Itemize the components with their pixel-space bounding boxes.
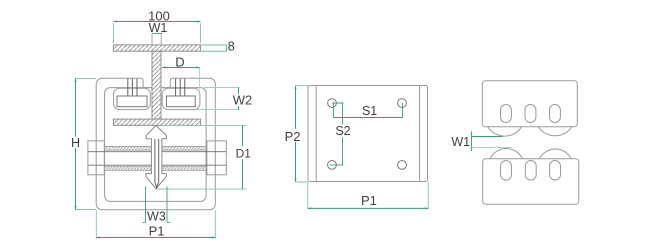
upper block slot 1 bbox=[501, 105, 512, 123]
hole top-right bbox=[398, 99, 407, 108]
upper block slot 2 bbox=[525, 105, 536, 123]
lower block slot 1 bbox=[501, 161, 512, 181]
upper roller arc right bbox=[538, 127, 571, 136]
suspension rod bbox=[155, 139, 159, 187]
svg-text:W1: W1 bbox=[149, 21, 168, 35]
left roller axle bolt lines bbox=[128, 79, 137, 96]
dimension P1 (middle view) bbox=[308, 182, 428, 209]
dimension D1 bbox=[157, 126, 247, 190]
dimension P1 (left view) bbox=[96, 210, 215, 238]
lower roller arc left bbox=[490, 149, 523, 159]
dimension 100 bbox=[113, 21, 200, 23]
I-beam top flange (hatched) bbox=[113, 45, 200, 51]
left axle tab bbox=[88, 141, 104, 175]
svg-text:W1: W1 bbox=[451, 135, 470, 149]
upper trolley block bbox=[482, 81, 577, 127]
svg-text:S2: S2 bbox=[335, 124, 350, 138]
upper block slot 3 bbox=[550, 105, 561, 123]
svg-text:W3: W3 bbox=[147, 209, 166, 223]
hole bottom-left bbox=[328, 161, 337, 170]
dimension S1 bbox=[334, 103, 403, 118]
svg-text:W2: W2 bbox=[233, 93, 253, 108]
dimension W1 (right view gap) bbox=[471, 131, 473, 151]
dimension W3 bbox=[143, 187, 170, 223]
mounting plate bbox=[308, 86, 428, 182]
upper threaded axle (hatched band) bbox=[105, 146, 207, 150]
svg-text:H: H bbox=[71, 136, 80, 150]
svg-text:P1: P1 bbox=[361, 193, 377, 208]
right axle tab bbox=[207, 141, 226, 175]
trolley body outer plate with top notch bbox=[96, 78, 215, 209]
lower trolley block bbox=[483, 159, 579, 204]
svg-text:S1: S1 bbox=[362, 104, 377, 118]
central double adjustment arrow bbox=[146, 126, 166, 189]
svg-text:8: 8 bbox=[228, 38, 235, 53]
lower threaded axle (hatched band) bbox=[105, 167, 207, 171]
svg-text:P1: P1 bbox=[149, 223, 165, 238]
left roller bbox=[114, 88, 151, 109]
lower block slot 3 bbox=[550, 161, 561, 181]
lower roller arc right bbox=[539, 149, 571, 159]
dimension 8 (flange thickness) bbox=[202, 45, 228, 51]
dimension H bbox=[75, 78, 77, 209]
lower block slot 2 bbox=[525, 161, 536, 181]
dimension W2 bbox=[197, 88, 239, 110]
svg-text:D1: D1 bbox=[236, 146, 252, 160]
dimension P2 bbox=[295, 86, 297, 182]
svg-text:P2: P2 bbox=[285, 129, 301, 144]
body inner plate outline bbox=[105, 88, 207, 202]
hole bottom-right bbox=[398, 161, 407, 170]
right roller axle bolt lines bbox=[176, 79, 185, 96]
I-beam bottom flange (hatched) bbox=[113, 119, 200, 125]
upper roller arc left bbox=[488, 127, 522, 136]
left roller hub bbox=[117, 96, 147, 107]
right roller hub bbox=[167, 96, 196, 107]
right roller bbox=[162, 88, 200, 109]
I-beam web (hatched) bbox=[152, 51, 161, 119]
hole top-left bbox=[328, 99, 337, 108]
plate bend lines bbox=[316, 86, 419, 182]
dimension S2 bbox=[330, 103, 344, 165]
axle long edge lines bbox=[88, 152, 226, 166]
